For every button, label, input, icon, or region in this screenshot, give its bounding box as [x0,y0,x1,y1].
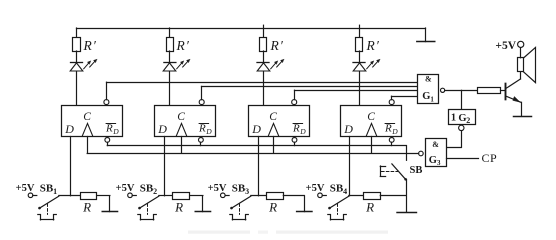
svg-text:+5V: +5V [116,183,135,194]
wire FF2 clock to clock bus [181,137,183,154]
clock edge triangle (FF4) [366,123,377,136]
ground (network 3) [297,211,312,213]
wire SB2 to node D2 [159,195,173,197]
label C (clock input, FF1) [83,111,91,123]
svg-text:&: & [432,140,439,149]
inverter gate G2 [449,110,476,126]
output bubble of G3 (clock line) [419,151,424,156]
wire R'2 to LED2 [169,51,171,62]
wire FF3 D input to push-button SB3 [258,137,260,196]
flip-flop FF1 (D flip-flop) [62,106,123,137]
clock edge triangle (FF2) [176,123,187,136]
wire emitter to ground [521,102,523,116]
label C (clock input, FF2) [177,111,185,123]
wire rail to R'4 [359,25,361,37]
+5V supply terminal (network 4) [306,183,327,197]
push-button actuator (SB1) [38,204,57,220]
wire R to ground (network 2) [190,196,203,212]
wire speaker to +5V terminal [520,48,522,58]
svg-text:R ′: R ′ [366,38,380,53]
resistor (transistor base) [478,88,501,94]
ground (SB / network 4) [397,212,417,214]
label R&#773;D (reset input, FF2) [198,123,212,136]
label D (data input, FF2) [157,122,167,136]
wire G2 output to gate G3 [447,131,462,148]
svg-text:G: G [422,91,430,102]
svg-text:SB: SB [140,183,154,195]
pin bubble (FF3 bottom) [292,138,297,143]
flip-flop FF4 (D flip-flop) [341,106,402,137]
switch SB2 (answer push-button) [138,196,159,209]
svg-text:G: G [429,155,437,166]
clock edge triangle (FF3) [268,123,279,136]
wire FF3 Q to bus 3 [294,90,296,99]
wire FF4 bottom bubble to reset bus [391,142,393,145]
label C (clock input, FF3) [269,111,277,123]
pin bubble (FF2 bottom) [199,138,204,143]
label D (data input, FF1) [64,122,74,136]
svg-text:C: C [269,111,277,123]
svg-text:C: C [177,111,185,123]
push-button actuator (SB4) [328,204,347,220]
resistor R (network 4) [364,193,381,200]
wire FF4 Q to bus 4 [391,96,393,99]
svg-text:SB: SB [330,183,344,195]
pin bubble (FF4 bottom) [389,138,394,143]
wire G1 output to base resistor [445,90,478,92]
svg-text:R ′: R ′ [270,38,284,53]
svg-text:R ′: R ′ [176,38,190,53]
+5V supply terminal (network 1) [16,183,37,197]
svg-text:C: C [367,111,375,123]
svg-text:R: R [105,123,113,135]
svg-text:R: R [198,123,206,135]
svg-text:R: R [384,123,392,135]
svg-text:C: C [83,111,91,123]
svg-text:D: D [251,122,261,136]
svg-text:+5V: +5V [16,183,35,194]
value label R' (column 2) [176,38,190,53]
transistor Q1 (NPN driver) [506,79,522,102]
+5V supply terminal (speaker) [495,40,523,52]
resistor R' (column 1) [73,38,81,52]
resistor R' (column 3) [260,38,267,52]
svg-text:R: R [292,123,300,135]
label SB4 [330,183,347,196]
value label R (network 1) [82,199,91,214]
svg-text:CP: CP [482,151,498,165]
pin Q output bubble (FF3 top) [292,100,297,105]
wire collector to speaker [520,72,522,79]
resistor R (network 1) [81,193,97,200]
svg-text:R: R [268,199,277,214]
wire top ground rail [77,28,426,30]
wire bus 4 (FF4 Q to gate G1) [392,96,418,98]
nand gate G1 [418,75,439,104]
label C (clock input, FF4) [367,111,375,123]
svg-text:1: 1 [451,113,456,124]
value label R' (column 4) [366,38,380,53]
wire SB to ground [406,180,408,212]
push-button actuator (SB3) [230,204,249,220]
label R&#773;D (reset input, FF4) [384,123,398,136]
speaker B (loudspeaker) [518,47,536,82]
wire LED1 to flip-flop FF1 [76,71,78,105]
output bubble of G2 [459,125,464,130]
switch SB3 (answer push-button) [230,196,251,209]
clock edge triangle (FF1) [82,123,93,136]
label D (data input, FF3) [251,122,261,136]
svg-text:R ′: R ′ [83,38,97,53]
wire FF2 D input to push-button SB2 [164,137,166,196]
LED D2 (light-emitting diode) [163,59,190,71]
wire FF1 Q to bus 1 [106,82,108,99]
svg-text:R: R [82,199,91,214]
wire SB3 to node D3 [251,195,267,197]
svg-text:2: 2 [153,187,157,196]
svg-text:+5V: +5V [306,183,325,194]
switch SB4 (answer push-button) [328,196,349,209]
+5V supply terminal (network 2) [116,183,137,197]
svg-text:D: D [112,127,119,136]
svg-text:&: & [425,75,432,84]
svg-text:3: 3 [437,159,441,167]
nand gate G3 [426,139,447,168]
wire R'1 to LED1 [76,51,78,62]
wire FF2 bottom bubble to reset bus [200,142,202,145]
wire SB4 to node D4 [349,195,364,197]
resistor R (network 3) [267,193,284,200]
value label R' (column 3) [270,38,284,53]
label SB3 [232,183,249,196]
svg-text:D: D [64,122,74,136]
label D (data input, FF4) [343,122,353,136]
wire LED2 to flip-flop FF2 [169,71,171,105]
wire FF4 D input to push-button SB4 [349,137,351,196]
LED D3 (light-emitting diode) [257,59,284,71]
wire FF3 bottom bubble to reset bus [294,142,296,145]
wire FF2 Q to bus 2 [201,86,203,99]
wire G3 to CP input [447,158,479,160]
switch SB1 (answer push-button) [38,196,59,209]
value label R (network 3) [268,199,277,214]
resistor R' (column 2) [167,38,174,52]
wire R to ground (network 1) [97,196,110,212]
wire FF1 bottom bubble to reset bus [107,142,109,145]
resistor R' (column 4) [356,38,363,52]
svg-text:SB: SB [40,183,54,195]
label SB2 [140,183,157,196]
value label R (network 2) [174,199,183,214]
flip-flop FF2 (D flip-flop) [155,106,216,137]
wire reset bus (FF bottom bubbles) [107,146,406,161]
switch SB (reset push-button) [392,164,407,181]
svg-text:SB: SB [410,165,423,176]
label R&#773;D (reset input, FF3) [292,123,306,136]
wire LED4 to flip-flop FF4 [359,71,361,105]
label R&#773;D (reset input, FF1) [105,123,119,136]
label SB (reset) [410,165,423,176]
resistor R (network 2) [173,193,190,200]
svg-text:D: D [299,127,306,136]
wire resistor to transistor base [501,90,506,92]
svg-text:D: D [205,127,212,136]
wire bus 2 (FF2 Q to gate G1) [202,86,418,88]
push-button actuator (SB2) [138,204,157,220]
wire FF1 D input to push-button SB1 [70,137,72,196]
svg-text:1: 1 [53,187,57,196]
svg-text:D: D [391,127,398,136]
flip-flop FF3 (D flip-flop) [249,106,310,137]
svg-text:R: R [365,199,374,214]
wire rail to R'1 [76,28,78,38]
pin Q output bubble (FF1 top) [104,100,109,105]
wire clock bus (G3 output to all FF clocks) [87,153,418,155]
svg-text:D: D [157,122,167,136]
value label R (network 4) [365,199,374,214]
wire R to ground (network 3) [283,196,304,212]
svg-text:4: 4 [343,187,347,196]
faint caption remnant (cut off) [188,231,388,234]
wire FF1 clock to clock bus [87,137,89,154]
pin bubble (FF1 bottom) [105,138,110,143]
ground (network 1) [102,211,117,213]
wire R (network 4) to shared ground [380,195,406,197]
pin Q output bubble (FF4 top) [389,100,394,105]
wire bus 1 (FF1 Q to gate G1) [107,82,418,84]
svg-text:SB: SB [232,183,246,195]
pin Q output bubble (FF2 top) [199,100,204,105]
wire FF3 clock to clock bus [273,137,275,154]
label SB1 [40,183,57,196]
wire FF4 clock to clock bus [371,137,373,154]
svg-text:D: D [343,122,353,136]
ground (network 2) [195,211,210,213]
wire LED3 to flip-flop FF3 [263,71,265,105]
wire rail to R'2 [169,28,171,38]
output bubble of G1 [441,88,445,92]
svg-text:2: 2 [466,116,470,125]
wire bus 3 (FF3 Q to gate G1) [295,90,418,92]
ground (top rail) [417,28,435,42]
push-button actuator (SB) [380,166,397,177]
svg-text:1: 1 [430,95,434,103]
ground (emitter) [514,116,532,118]
+5V supply terminal (network 3) [208,183,229,197]
node CP (clock pulse input) [482,151,498,165]
wire R'4 to LED4 [359,51,361,62]
svg-text:+5V: +5V [208,183,227,194]
wire SB1 to node D1 [59,195,80,197]
LED D4 (light-emitting diode) [353,59,380,71]
wire R'3 to LED3 [263,51,265,62]
svg-text:+5V: +5V [495,40,516,52]
svg-text:3: 3 [245,187,249,196]
wire G1 output to gate G2 [461,90,463,109]
LED D1 (light-emitting diode) [70,59,97,71]
svg-text:R: R [174,199,183,214]
value label R' (column 1) [83,38,97,53]
wire rail to R'3 [263,25,265,37]
